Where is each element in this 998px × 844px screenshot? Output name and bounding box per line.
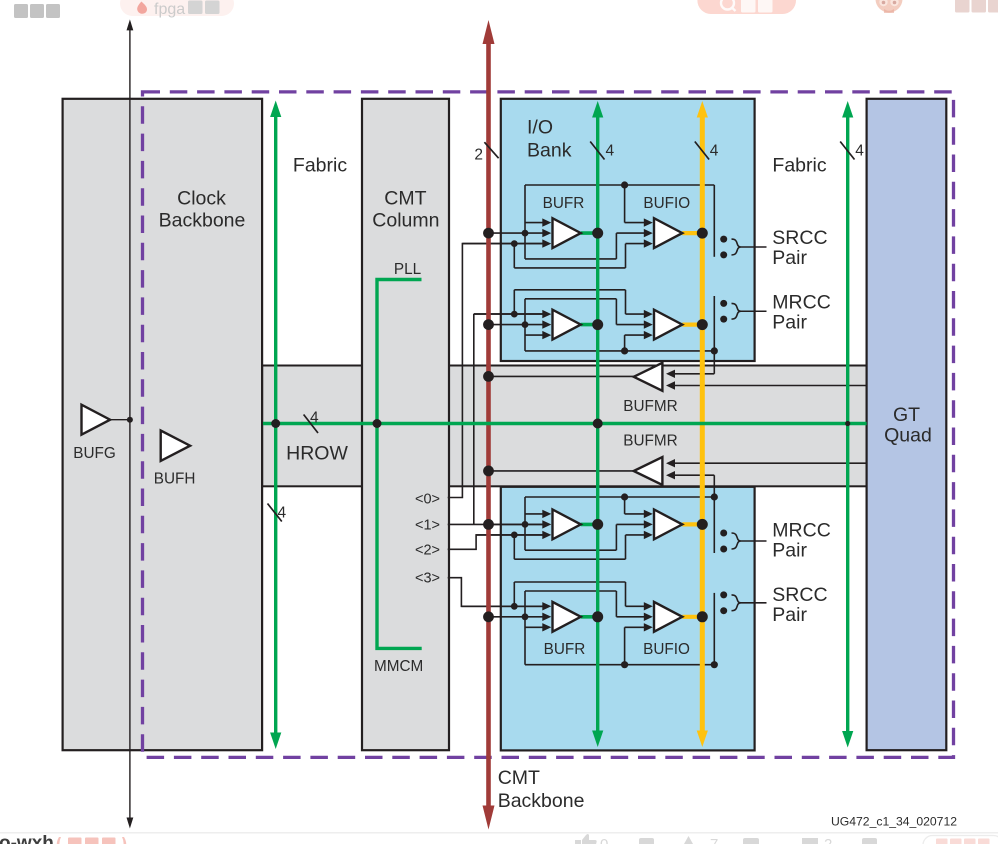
svg-text:BUFMR: BUFMR bbox=[623, 398, 677, 415]
svg-text:0: 0 bbox=[600, 836, 608, 844]
svg-text:MRCC: MRCC bbox=[772, 520, 831, 542]
svg-text:4: 4 bbox=[606, 143, 615, 160]
svg-text:BUFMR: BUFMR bbox=[623, 433, 677, 450]
svg-text:BUFR: BUFR bbox=[543, 195, 585, 212]
svg-text:<2>: <2> bbox=[415, 543, 440, 559]
svg-text:BUFR: BUFR bbox=[544, 641, 586, 658]
svg-text:Bank: Bank bbox=[527, 139, 572, 161]
svg-text:HROW: HROW bbox=[286, 443, 348, 465]
svg-text:Fabric: Fabric bbox=[772, 155, 826, 177]
svg-text:MRCC: MRCC bbox=[772, 292, 831, 314]
svg-text:fpga: fpga bbox=[154, 1, 185, 18]
svg-text:7: 7 bbox=[710, 836, 718, 844]
svg-text:2: 2 bbox=[824, 836, 832, 844]
svg-text:o-wxh: o-wxh bbox=[0, 833, 54, 844]
svg-text:CMT: CMT bbox=[498, 767, 540, 789]
svg-text:CMT: CMT bbox=[384, 188, 426, 210]
svg-text:SRCC: SRCC bbox=[772, 227, 827, 249]
svg-text:4: 4 bbox=[710, 143, 719, 160]
svg-text:Pair: Pair bbox=[772, 604, 807, 626]
svg-text:Clock: Clock bbox=[177, 188, 226, 210]
svg-text:PLL: PLL bbox=[394, 261, 421, 278]
svg-text:BUFH: BUFH bbox=[154, 471, 196, 488]
svg-text:4: 4 bbox=[310, 410, 319, 427]
svg-text:Column: Column bbox=[372, 210, 439, 232]
svg-text:Backbone: Backbone bbox=[159, 210, 246, 232]
svg-text:MMCM: MMCM bbox=[374, 658, 423, 675]
svg-text:<0>: <0> bbox=[415, 492, 440, 508]
svg-text:Pair: Pair bbox=[772, 312, 807, 334]
svg-text:4: 4 bbox=[278, 505, 287, 522]
svg-text:<3>: <3> bbox=[415, 571, 440, 587]
svg-text:BUFIO: BUFIO bbox=[643, 641, 690, 658]
svg-text:BUFG: BUFG bbox=[73, 445, 116, 462]
svg-text:BUFIO: BUFIO bbox=[643, 195, 690, 212]
svg-text:Quad: Quad bbox=[884, 425, 932, 447]
svg-text:4: 4 bbox=[855, 143, 864, 160]
svg-text:SRCC: SRCC bbox=[772, 584, 827, 606]
svg-text:Backbone: Backbone bbox=[498, 790, 585, 812]
svg-text:UG472_c1_34_020712: UG472_c1_34_020712 bbox=[831, 815, 957, 829]
svg-text:Pair: Pair bbox=[772, 247, 807, 269]
svg-text:2: 2 bbox=[474, 147, 483, 164]
svg-text:GT: GT bbox=[893, 404, 920, 426]
svg-text:Pair: Pair bbox=[772, 540, 807, 562]
svg-text:I/O: I/O bbox=[527, 116, 553, 138]
svg-text:Fabric: Fabric bbox=[293, 155, 347, 177]
svg-text:<1>: <1> bbox=[415, 518, 440, 534]
